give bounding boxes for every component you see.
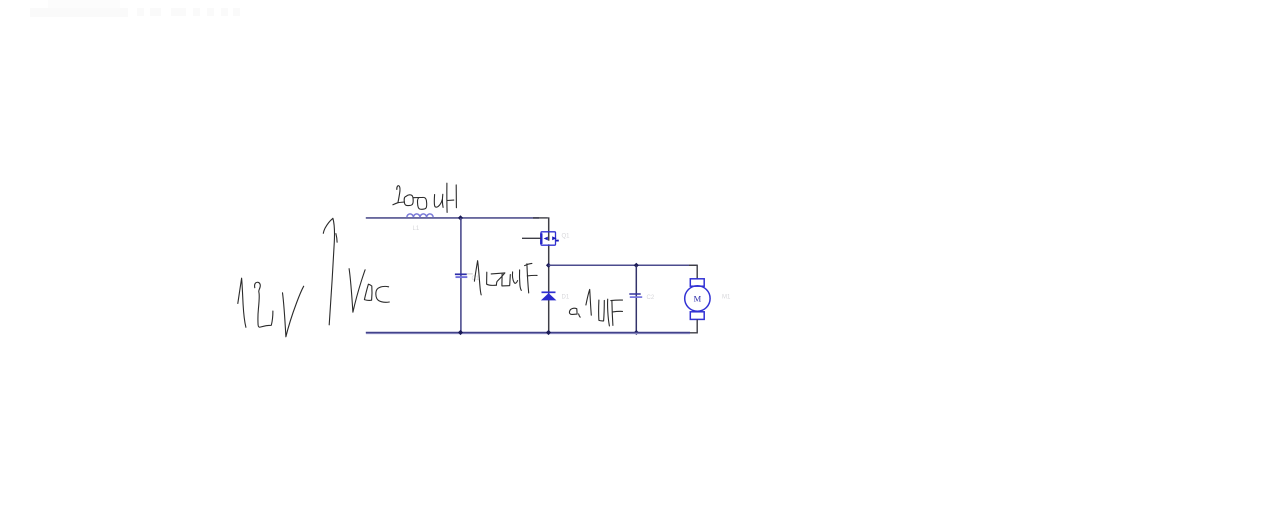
wire C1 branch bbox=[460, 218, 462, 333]
wire motor corner top bbox=[689, 265, 697, 279]
wire drain corner segment bbox=[533, 217, 548, 219]
wire top rail bbox=[366, 217, 539, 219]
capacitor C1 (polarized 150uF) bbox=[455, 274, 473, 277]
svg-text:L1: L1 bbox=[413, 226, 420, 232]
handwritten label VDC bbox=[349, 269, 389, 313]
handwritten capacitor value 0.1uF bbox=[569, 289, 622, 326]
wire C2 branch bbox=[635, 265, 637, 333]
svg-text:D1: D1 bbox=[562, 295, 570, 301]
svg-text:C1: C1 bbox=[472, 276, 480, 282]
wire motor lead bottom bbox=[689, 319, 697, 332]
node junction Q1 source / D1 / output bbox=[546, 263, 551, 268]
handwritten source value 12V bbox=[238, 278, 304, 337]
node junction C2 top bbox=[634, 263, 639, 268]
node junction C2 bottom bbox=[634, 330, 639, 335]
wire bottom rail bbox=[366, 332, 690, 334]
svg-text:M: M bbox=[694, 293, 702, 303]
transistor Q1 (MOSFET) bbox=[541, 232, 559, 245]
wire MOSFET / diode branch (vertical) bbox=[548, 217, 550, 333]
diode D1 bbox=[541, 292, 557, 300]
motor M1 bbox=[685, 279, 710, 320]
node junction bottom C1 bbox=[458, 330, 463, 335]
svg-text:M1: M1 bbox=[722, 295, 731, 301]
svg-text:C2: C2 bbox=[647, 295, 655, 301]
handwritten inductor value 200uH bbox=[393, 183, 457, 212]
handwritten capacitor value 150uF bbox=[474, 261, 537, 295]
node junction L1 / C1 bbox=[458, 215, 463, 220]
faint whited-out toolbar remnant bbox=[30, 0, 240, 17]
handwritten arrow (source polarity) bbox=[323, 218, 337, 324]
capacitor C2 bbox=[629, 294, 642, 297]
wire gate lead bbox=[522, 237, 541, 239]
svg-text:Q1: Q1 bbox=[562, 234, 571, 240]
node junction bottom D1 bbox=[546, 330, 551, 335]
inductor L1 bbox=[407, 214, 433, 218]
wire output rail bbox=[549, 264, 698, 266]
